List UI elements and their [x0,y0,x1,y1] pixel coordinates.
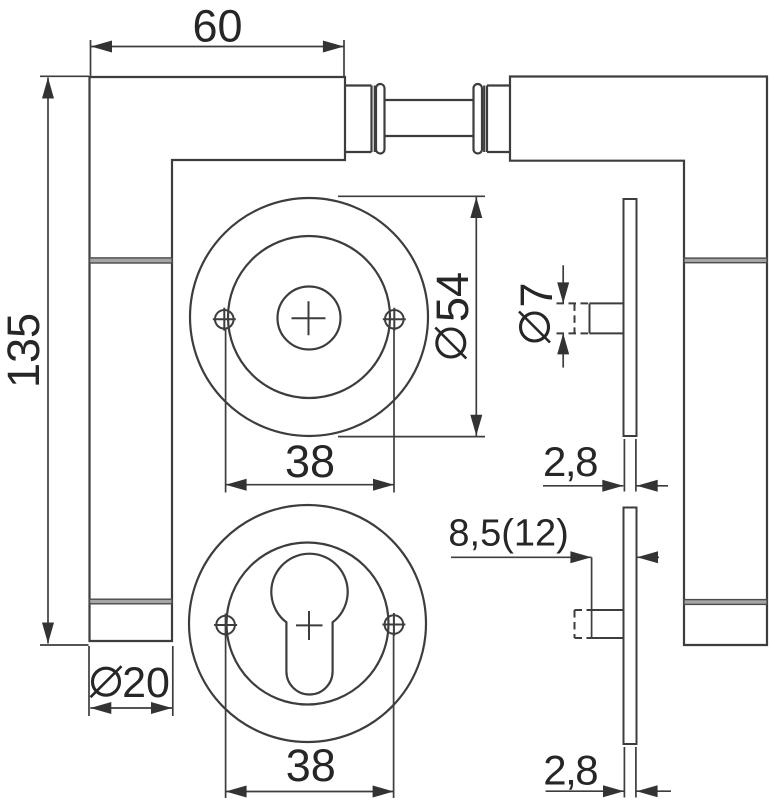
svg-text:20: 20 [122,659,170,707]
svg-text:38: 38 [286,740,336,791]
svg-text:38: 38 [285,436,335,487]
svg-text:2,8: 2,8 [543,438,597,485]
svg-text:2,8: 2,8 [543,747,597,794]
svg-text:7: 7 [511,282,562,307]
svg-text:54: 54 [427,272,478,322]
svg-text:60: 60 [192,1,242,52]
svg-text:8,5(12): 8,5(12) [448,513,568,555]
svg-text:135: 135 [0,313,49,388]
